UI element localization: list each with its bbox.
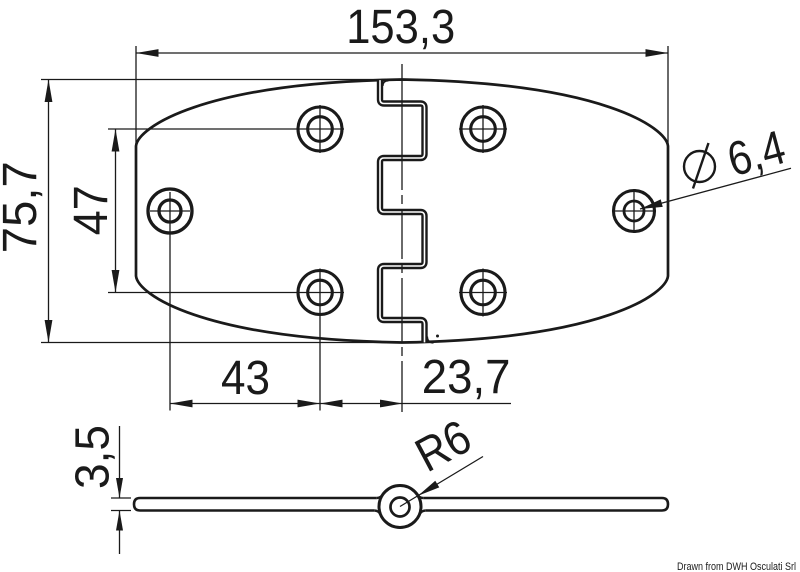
barrel pin circle [391, 498, 410, 517]
svg-text:23,7: 23,7 [422, 351, 511, 404]
hole bottom-middle-right [459, 269, 507, 317]
svg-text:Drawn from DWH Osculati Srl: Drawn from DWH Osculati Srl [677, 561, 796, 572]
side view left leaf [134, 498, 377, 511]
dimension 75,7 [41, 80, 400, 343]
barrel fillets [374, 495, 425, 515]
dimension 43 and 23,7 [170, 231, 511, 411]
center line (pin axis) [401, 64, 403, 412]
svg-text:6,4: 6,4 [722, 121, 791, 187]
svg-text:3,5: 3,5 [67, 425, 120, 489]
dimension 153,3 [136, 46, 668, 148]
diameter symbol [684, 143, 715, 189]
hole left [148, 189, 192, 233]
hole bottom-middle-left [296, 269, 344, 317]
svg-text:75,7: 75,7 [0, 161, 47, 253]
dimension 3,5 [111, 426, 131, 554]
hole top-middle-left [296, 105, 344, 153]
knuckle seam castellated joint [380, 80, 434, 343]
hole top-middle-right [459, 105, 507, 153]
leader diameter 6,4 [640, 168, 791, 209]
hinge outline (top view) [136, 80, 668, 343]
dimension 47 [108, 129, 296, 293]
hole right [612, 189, 656, 233]
svg-text:R6: R6 [407, 411, 480, 483]
svg-text:47: 47 [65, 185, 118, 235]
svg-text:153,3: 153,3 [346, 1, 455, 54]
side view right leaf [423, 498, 668, 511]
svg-text:43: 43 [221, 352, 270, 405]
leader R6 [400, 457, 483, 507]
barrel outer circle [379, 486, 421, 528]
small dot near seam bottom [436, 335, 439, 338]
